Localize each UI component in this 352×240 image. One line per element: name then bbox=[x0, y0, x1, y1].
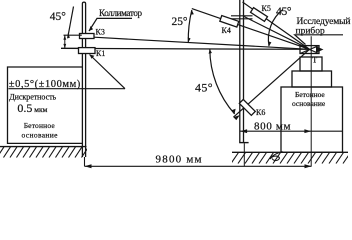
wire beam from K3 to device bbox=[94, 37, 310, 49]
scribble artifact at base left corner bbox=[270, 152, 283, 161]
svg-text:К3: К3 bbox=[96, 27, 105, 36]
leader line of Kollimator label bbox=[89, 18, 132, 31]
svg-text:К6: К6 bbox=[256, 108, 265, 117]
45-degree arc at device bbox=[268, 9, 283, 46]
label leader of issleduemyj pribor bbox=[295, 35, 343, 45]
svg-text:Коллиматор: Коллиматор bbox=[99, 8, 143, 18]
mirror K5 block bbox=[251, 8, 268, 22]
svg-text:0.5 мкм: 0.5 мкм bbox=[17, 101, 47, 115]
left ground hatching bbox=[0, 147, 89, 158]
svg-text:Т: Т bbox=[312, 56, 317, 65]
central pole extension line to dimension bbox=[243, 143, 245, 166]
svg-text:Исследуемый: Исследуемый bbox=[297, 16, 351, 27]
wire main optical axis from K1 to device bbox=[61, 47, 310, 50]
mirror K4 block bbox=[220, 16, 239, 28]
pedestal small box bbox=[300, 57, 322, 71]
wire beam from pole bracket to device bbox=[244, 17, 310, 50]
svg-text:45°: 45° bbox=[276, 6, 292, 18]
svg-text:45°: 45° bbox=[195, 81, 213, 95]
45-degree tilted ray at left pole bbox=[68, 7, 74, 39]
45-degree arc below axis bbox=[210, 49, 235, 114]
device centerline bbox=[310, 36, 312, 166]
svg-text:45°: 45° bbox=[50, 11, 66, 23]
pedestal middle box bbox=[292, 71, 332, 87]
dimension 9800 mm bbox=[84, 157, 86, 166]
accuracy label leader triangle to K1 bbox=[9, 88, 126, 90]
svg-text:К5: К5 bbox=[262, 4, 271, 13]
device cross diagonal 1 bbox=[300, 46, 319, 54]
wire 25-degree beam through K4 bbox=[192, 9, 310, 50]
svg-text:Бетонное: Бетонное bbox=[295, 90, 325, 99]
device cross diagonal 2 bbox=[300, 46, 319, 54]
pedestal concrete base box bbox=[281, 87, 343, 152]
wire 45-degree beam through K6 with arrow bbox=[233, 49, 309, 117]
25-degree arc bbox=[188, 10, 192, 42]
vertical dimension between K3 and K1 levels bbox=[64, 34, 82, 36]
svg-text:Бетонное: Бетонное bbox=[24, 121, 56, 130]
right ground line bbox=[232, 151, 348, 153]
svg-text:25°: 25° bbox=[172, 16, 188, 28]
svg-text:800 мм: 800 мм bbox=[254, 121, 291, 133]
left ground line bbox=[0, 146, 87, 148]
mounting bracket on central pole bbox=[231, 15, 253, 17]
svg-text:9800 мм: 9800 мм bbox=[156, 154, 202, 166]
svg-text:основание: основание bbox=[292, 99, 326, 108]
collimator K1 block bbox=[79, 48, 96, 54]
device axis arrow bbox=[316, 46, 324, 52]
left instrument cabinet box bbox=[8, 67, 83, 143]
svg-text:прибор: прибор bbox=[296, 26, 326, 37]
mirror K6 block bbox=[239, 99, 255, 115]
svg-text:К4: К4 bbox=[222, 26, 231, 35]
svg-text:основание: основание bbox=[22, 130, 59, 139]
left mast pole bbox=[82, 2, 85, 157]
dimension 800 mm bbox=[240, 130, 342, 132]
collimator K3 block bbox=[80, 34, 95, 39]
svg-text:К1: К1 bbox=[96, 49, 105, 58]
central pole foot bbox=[239, 142, 248, 144]
central mast pole bbox=[239, 0, 241, 143]
wire K5 beam from pole top to device bbox=[243, 2, 310, 49]
svg-text:Дискретность: Дискретность bbox=[9, 93, 56, 102]
svg-text:±0,5°(±100мм): ±0,5°(±100мм) bbox=[9, 79, 81, 90]
right ground hatching bbox=[231, 153, 351, 164]
device under test box bbox=[300, 46, 319, 54]
